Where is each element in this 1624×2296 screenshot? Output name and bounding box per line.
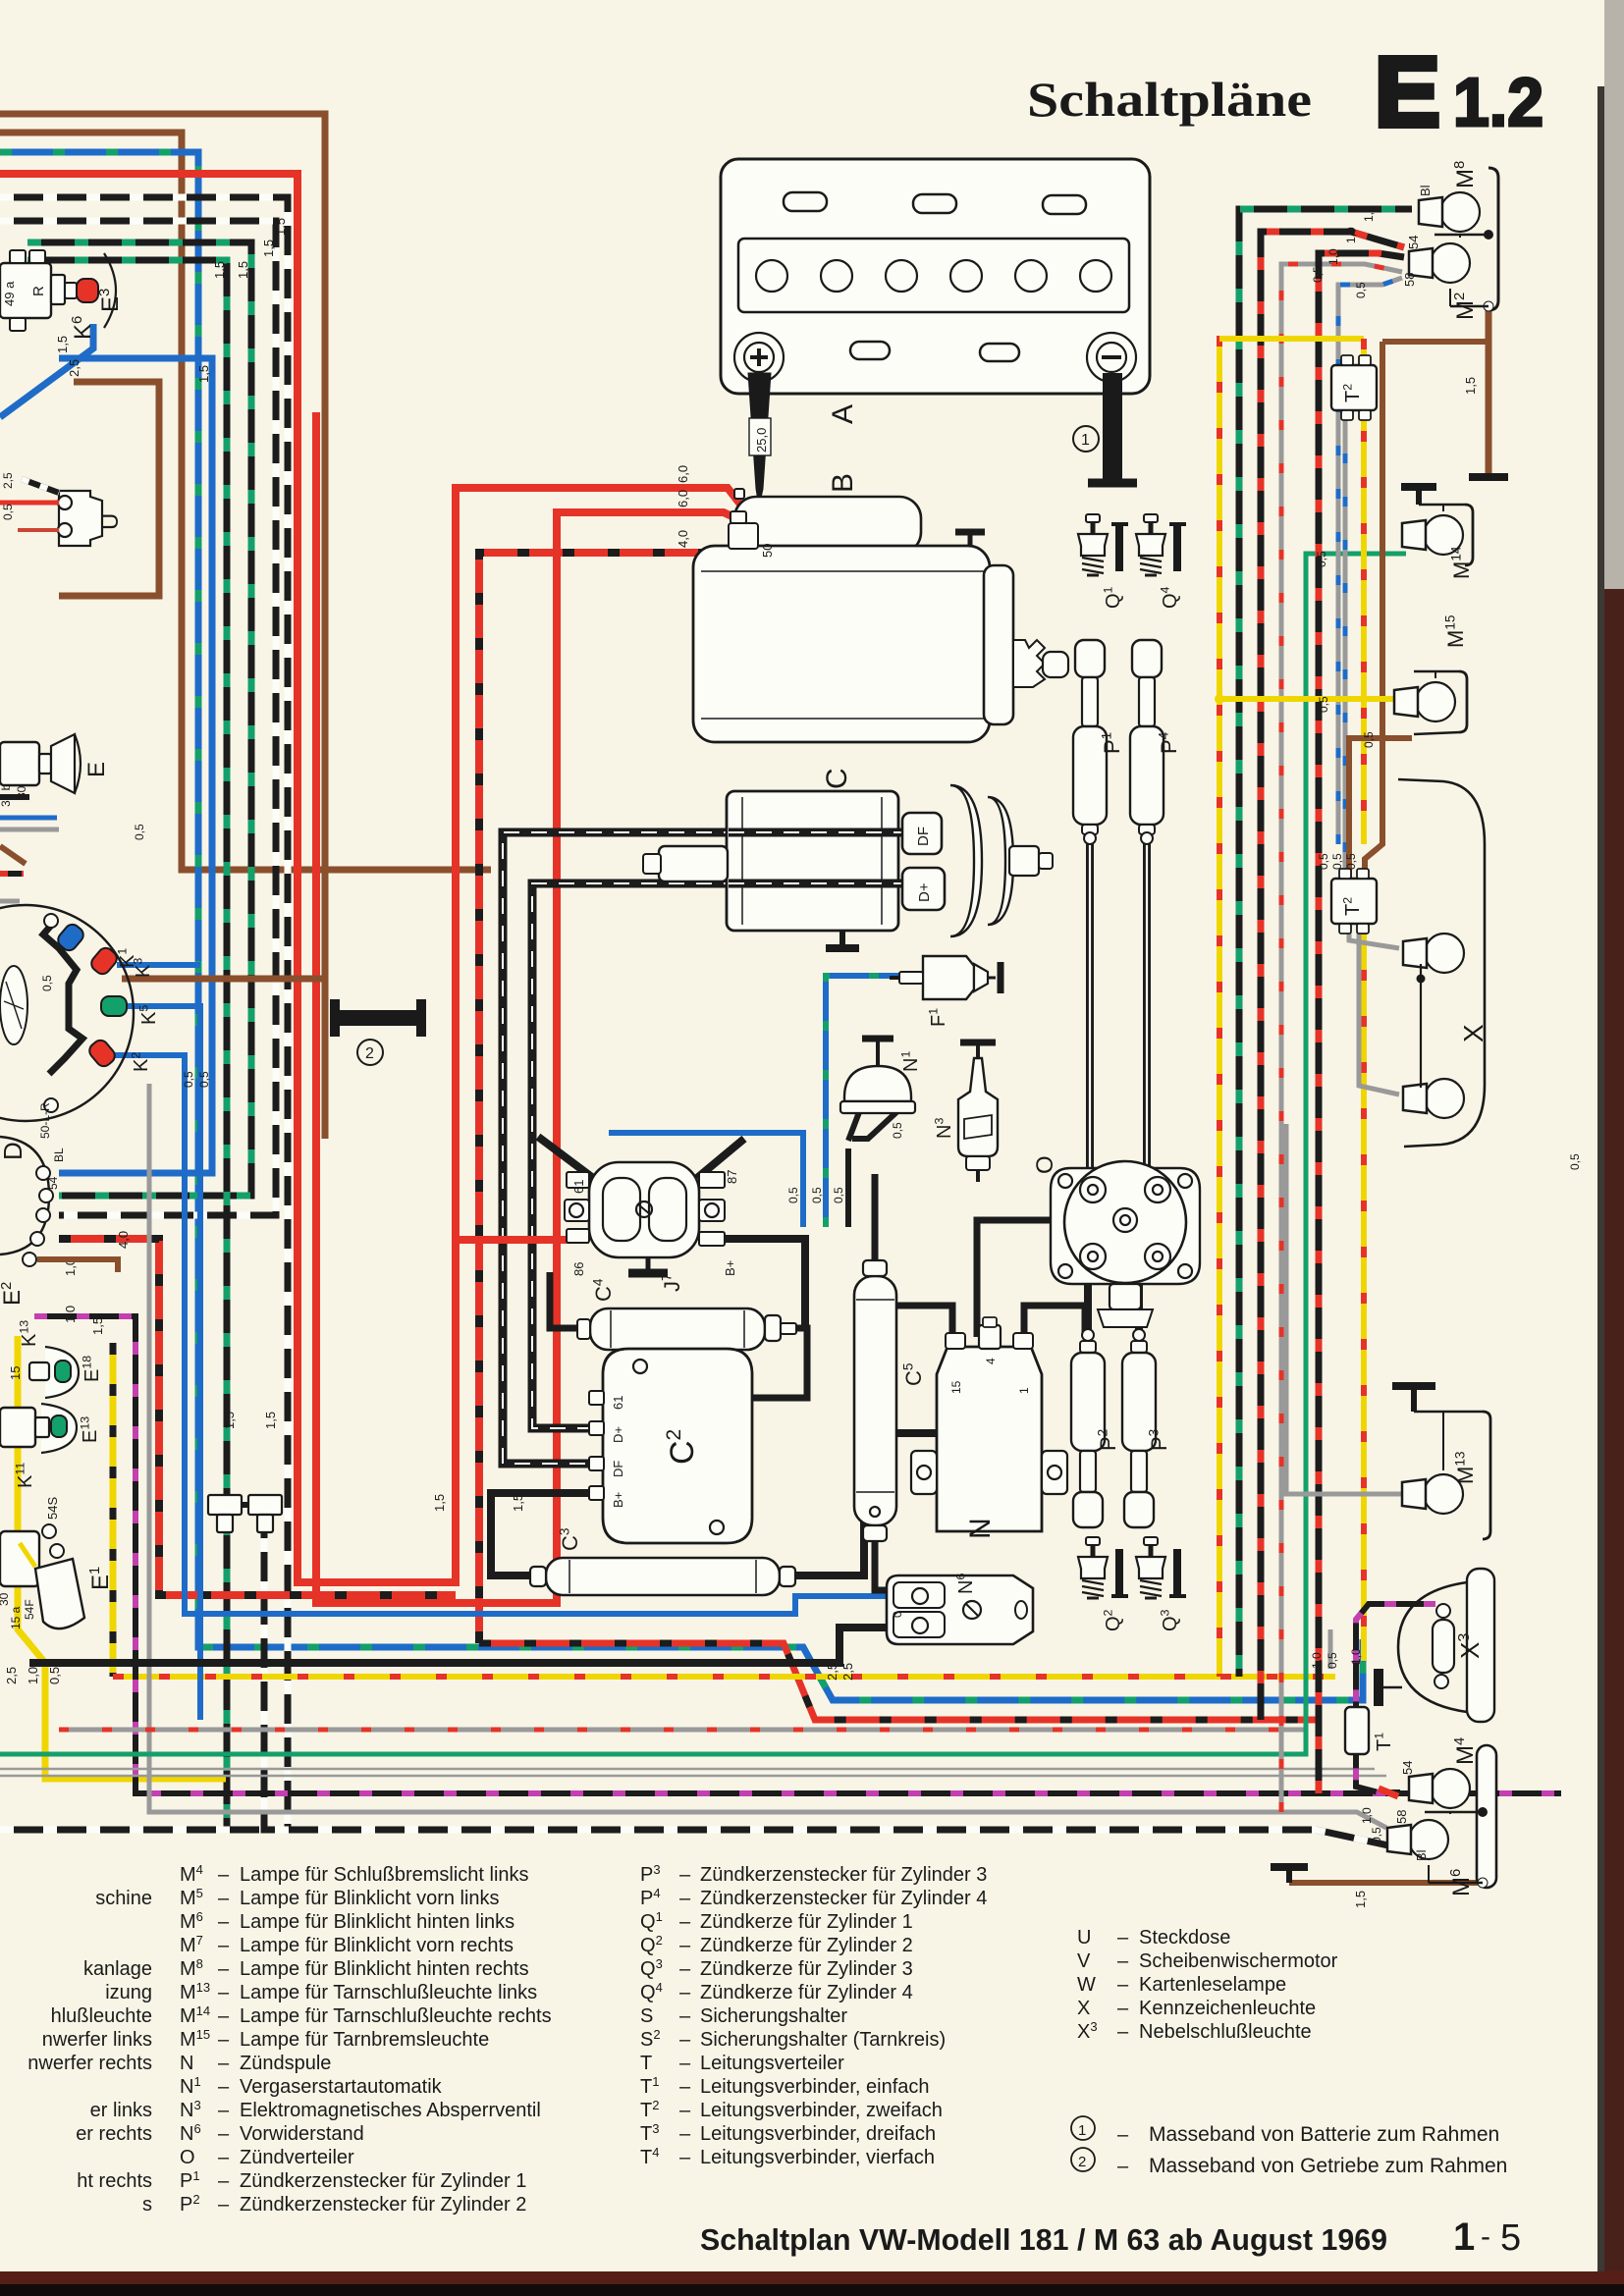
svg-text:5: 5 xyxy=(1500,2217,1521,2259)
wire C5 bottom lead xyxy=(875,1538,923,1590)
resistor N6 body xyxy=(887,1575,1033,1644)
svg-text:BL: BL xyxy=(52,1148,66,1162)
svg-text:–: – xyxy=(218,1982,230,2003)
wire red J7 86 xyxy=(456,1236,589,1244)
starter end cap xyxy=(984,565,1013,724)
svg-text:Kennzeichenleuchte: Kennzeichenleuchte xyxy=(1139,1998,1316,2019)
svg-text:1: 1 xyxy=(1017,1387,1031,1394)
wire yellow/red long bottom xyxy=(113,1674,1335,1680)
connector T1 xyxy=(1345,1707,1369,1754)
svg-text:–: – xyxy=(679,2076,691,2098)
wire yellow/black 1.5 xyxy=(110,1343,117,1677)
wire blue K2 lamp xyxy=(114,1055,887,1614)
lamp M14 xyxy=(1424,515,1463,555)
svg-text:Leitungsverteiler: Leitungsverteiler xyxy=(700,2053,844,2074)
plug cable distributor to P1 xyxy=(1086,836,1094,1183)
wire brown second xyxy=(0,133,491,870)
svg-text:0,5: 0,5 xyxy=(1330,853,1344,870)
warning lamp K3 red xyxy=(88,945,120,978)
wire yellow/red fuse riser xyxy=(1217,336,1222,1677)
wire grey T2 to X bulb2 xyxy=(1359,924,1399,1095)
svg-text:0,5: 0,5 xyxy=(891,1122,904,1139)
svg-text:Zündkerze für Zylinder 1: Zündkerze für Zylinder 1 xyxy=(700,1911,913,1933)
wire C5 top lead xyxy=(872,1174,879,1263)
plug connector P4 xyxy=(1132,640,1162,677)
svg-text:1: 1 xyxy=(1081,432,1090,449)
svg-text:1,0: 1,0 xyxy=(26,1667,40,1684)
svg-text:0,5: 0,5 xyxy=(810,1187,824,1203)
fog lamp X3 housing xyxy=(1398,1582,1467,1712)
svg-text:6,0: 6,0 xyxy=(676,490,690,507)
svg-text:D+: D+ xyxy=(611,1426,625,1443)
wire blue/green to F1 xyxy=(826,976,913,1227)
flasher relay 49a body xyxy=(0,263,51,318)
svg-text:U: U xyxy=(97,513,124,530)
lamp K13 green xyxy=(45,1347,79,1398)
svg-text:1,5: 1,5 xyxy=(263,1412,278,1429)
warning lamp K5 green xyxy=(101,996,127,1016)
wire black/red second xyxy=(1319,253,1404,1793)
svg-text:schine: schine xyxy=(95,1888,152,1909)
junction dots M4 M6 xyxy=(1478,1807,1488,1817)
svg-text:0: 0 xyxy=(891,1611,904,1618)
regulator J7 body xyxy=(589,1162,699,1257)
wire C4 right lead xyxy=(752,1328,807,1398)
licence plate lamp X housing xyxy=(1398,779,1485,1147)
wire black/green 1.5 a xyxy=(27,242,251,1196)
wire red tip M4 54 xyxy=(1379,1789,1398,1796)
svg-text:30: 30 xyxy=(15,785,28,799)
svg-text:V: V xyxy=(1077,1950,1091,1972)
svg-text:54F: 54F xyxy=(23,1599,36,1620)
wire stub left edge b xyxy=(0,846,26,864)
svg-text:2: 2 xyxy=(1078,2154,1086,2170)
battery cell plate xyxy=(738,239,1129,312)
svg-text:–: – xyxy=(218,1935,230,1956)
svg-text:–: – xyxy=(218,2147,230,2168)
bulb M8 xyxy=(1440,192,1480,232)
svg-text:1,5: 1,5 xyxy=(196,365,211,383)
lamp housing bracket M4 M6 xyxy=(1477,1745,1496,1888)
svg-text:Zündkerzenstecker für Zylinder: Zündkerzenstecker für Zylinder 1 xyxy=(240,2170,526,2192)
warning lamp K2 red xyxy=(86,1038,118,1070)
label circled 2 xyxy=(357,1040,383,1065)
plug cable distributor to P3 xyxy=(1135,1260,1143,1335)
wire brown M15 link xyxy=(1349,738,1412,879)
svg-text:er links: er links xyxy=(90,2100,152,2121)
wire stub left edge d xyxy=(0,899,20,904)
striped stub to U xyxy=(22,479,59,493)
svg-text:er rechts: er rechts xyxy=(76,2123,152,2145)
svg-text:49 a: 49 a xyxy=(2,281,17,306)
svg-text:Zündverteiler: Zündverteiler xyxy=(240,2147,354,2168)
bulb M6 xyxy=(1409,1820,1448,1859)
junction dots M8 M2 xyxy=(1484,230,1493,240)
svg-text:61: 61 xyxy=(611,1396,625,1410)
svg-text:Zündkerzenstecker für Zylinder: Zündkerzenstecker für Zylinder 3 xyxy=(700,1864,987,1886)
wire grey T2 to X bulb1 xyxy=(1349,924,1399,948)
svg-text:–: – xyxy=(218,1958,230,1980)
distributor cap xyxy=(1064,1161,1186,1283)
distributor shaft xyxy=(1110,1284,1141,1309)
wire coil terminal 4 to distributor xyxy=(977,1220,1120,1337)
svg-text:0,5: 0,5 xyxy=(47,1667,62,1684)
cable C3 body xyxy=(546,1558,780,1595)
svg-text:–: – xyxy=(218,2194,230,2216)
svg-text:1,5: 1,5 xyxy=(273,218,288,236)
wire grey/blue riser xyxy=(1338,278,1402,844)
svg-text:15: 15 xyxy=(949,1380,963,1394)
connector T pieces left xyxy=(208,1495,242,1515)
svg-text:izung: izung xyxy=(105,1982,152,2003)
wire brown gauge link xyxy=(122,976,325,983)
wire brown D stub xyxy=(37,1259,118,1272)
link bulbs to bracket xyxy=(1459,235,1461,238)
speedometer housing circle xyxy=(0,905,134,1121)
svg-text:1,0: 1,0 xyxy=(63,1306,78,1323)
svg-text:Zündkerze für Zylinder 2: Zündkerze für Zylinder 2 xyxy=(700,1935,913,1956)
svg-text:Masseband von Batterie zum Rah: Masseband von Batterie zum Rahmen xyxy=(1149,2123,1499,2146)
svg-text:Zündkerze für Zylinder 4: Zündkerze für Zylinder 4 xyxy=(700,1982,913,2003)
svg-text:50-L-R: 50-L-R xyxy=(38,1102,52,1139)
svg-text:D: D xyxy=(0,1142,27,1160)
wire J7 87 diagonal xyxy=(697,1139,744,1178)
wire red to top-left edge xyxy=(0,174,748,1582)
speedometer terminals xyxy=(44,914,58,928)
wire C3 right to coil xyxy=(779,1433,937,1575)
svg-text:30: 30 xyxy=(0,1592,11,1606)
svg-text:–: – xyxy=(1117,2124,1129,2146)
svg-text:–: – xyxy=(1117,1998,1129,2019)
svg-text:–: – xyxy=(679,1864,691,1886)
choke N1 body xyxy=(844,1066,911,1101)
svg-text:Sicherungshalter: Sicherungshalter xyxy=(700,2005,847,2027)
svg-text:T: T xyxy=(640,2053,652,2074)
wire grey/red riser xyxy=(1281,264,1402,1812)
battery A body xyxy=(721,159,1150,394)
ground starter xyxy=(968,532,973,546)
cable DF generator to C2 xyxy=(503,832,904,1464)
svg-text:Lampe für Schlußbremslicht lin: Lampe für Schlußbremslicht links xyxy=(240,1864,529,1886)
svg-text:58: 58 xyxy=(1402,273,1417,287)
wire blue stub gauge xyxy=(0,816,57,821)
arc E3 around K6 xyxy=(104,253,116,328)
wire black/white 1.5 b xyxy=(0,221,276,1215)
connector T2 lower xyxy=(1331,879,1377,924)
wire blue 0.5 left xyxy=(609,1133,803,1227)
starter pinion gear xyxy=(1013,640,1045,687)
svg-text:Schaltplan VW-Modell 181 / M 6: Schaltplan VW-Modell 181 / M 63 ab Augus… xyxy=(700,2222,1387,2257)
svg-text:0,5: 0,5 xyxy=(1,504,15,520)
generator cable pass-through D+ xyxy=(729,880,902,888)
wire black/white bottom stub xyxy=(0,1827,264,1834)
svg-text:Lampe für Blinklicht hinten li: Lampe für Blinklicht hinten links xyxy=(240,1911,514,1933)
wire black/violet 1.0 xyxy=(34,1316,1561,1793)
svg-text:–: – xyxy=(679,2100,691,2121)
wire grey/red bottom long xyxy=(59,1728,1306,1733)
svg-text:2,5: 2,5 xyxy=(840,1663,855,1681)
svg-text:U: U xyxy=(1077,1927,1091,1949)
switch E body xyxy=(0,742,39,785)
svg-text:N: N xyxy=(964,1518,997,1539)
svg-text:2,5: 2,5 xyxy=(4,1667,19,1684)
wire red/black 4.0 from D 50 xyxy=(59,1239,456,1595)
ground M2 xyxy=(1488,476,1489,478)
wire brown 2.5 from socket U xyxy=(59,382,159,596)
svg-text:DF: DF xyxy=(611,1461,625,1477)
svg-text:–: – xyxy=(218,2053,230,2074)
wire brown outer frame top xyxy=(0,114,325,1139)
svg-text:50: 50 xyxy=(760,544,775,558)
wire brown T2 riser xyxy=(1365,342,1382,879)
svg-text:S: S xyxy=(640,2005,653,2027)
wire yellow M15 xyxy=(1219,696,1406,702)
svg-text:nwerfer links: nwerfer links xyxy=(42,2029,152,2051)
wire red/black 4.0 starter xyxy=(479,538,746,1643)
battery cells xyxy=(756,260,787,292)
ground J7 xyxy=(646,1257,651,1273)
plug connector P2 xyxy=(1082,1329,1094,1341)
switch E1 body xyxy=(0,1531,39,1586)
wire C4 left lead xyxy=(550,1272,590,1328)
ground N3 xyxy=(976,1042,980,1058)
wire black/green to M8 xyxy=(1239,209,1412,1669)
fuel gauge ellipse xyxy=(0,966,27,1044)
svg-text:–: – xyxy=(1117,1927,1129,1949)
wire yellow link T2 xyxy=(1219,336,1364,342)
svg-text:–: – xyxy=(679,2053,691,2074)
svg-text:0,5: 0,5 xyxy=(1311,266,1325,283)
battery plus terminal xyxy=(734,333,784,382)
spark plug Q4 xyxy=(1149,520,1154,534)
switch E1 lever xyxy=(35,1559,84,1629)
svg-text:–: – xyxy=(679,1982,691,2003)
svg-text:–: – xyxy=(679,1935,691,1956)
svg-text:1.2: 1.2 xyxy=(1453,64,1543,140)
svg-text:4,0: 4,0 xyxy=(676,530,690,548)
wire blue/green from edge xyxy=(0,152,1363,1700)
wire N1 fork b xyxy=(852,1112,896,1139)
svg-text:R: R xyxy=(30,286,47,296)
svg-text:0,5: 0,5 xyxy=(197,1071,211,1088)
lamp M13 xyxy=(1424,1474,1463,1514)
wire thin grey pair b xyxy=(0,1775,1386,1777)
starter B solenoid xyxy=(734,497,921,554)
wire violet/black X3 T1 M4 xyxy=(1356,1604,1435,1792)
page right edge shadow line xyxy=(1597,86,1604,2296)
generator cable pass-through DF xyxy=(729,828,902,837)
svg-text:C: C xyxy=(821,768,853,789)
svg-text:0,5: 0,5 xyxy=(1326,1652,1339,1669)
svg-text:0,5: 0,5 xyxy=(1317,696,1330,713)
wire black/white 1.5 a xyxy=(0,197,288,1830)
svg-text:W: W xyxy=(1077,1974,1096,1996)
bulb M4 xyxy=(1431,1769,1470,1808)
wire red socket U xyxy=(0,501,59,506)
svg-text:–: – xyxy=(1117,2156,1129,2177)
svg-text:1,5: 1,5 xyxy=(222,1412,237,1429)
svg-text:Lampe für Tarnschlußleuchte re: Lampe für Tarnschlußleuchte rechts xyxy=(240,2005,552,2027)
wire black/red to M2 54 xyxy=(1261,232,1404,1683)
svg-text:–: – xyxy=(1117,1974,1129,1996)
svg-text:DF: DF xyxy=(915,827,932,846)
bulb X3 xyxy=(1433,1620,1454,1673)
svg-text:Zündkerzenstecker für Zylinder: Zündkerzenstecker für Zylinder 2 xyxy=(240,2194,526,2216)
label circled 1 xyxy=(1073,426,1099,452)
svg-text:1,0: 1,0 xyxy=(1349,1648,1363,1665)
svg-text:Elektromagnetisches Absperrven: Elektromagnetisches Absperrventil xyxy=(240,2100,541,2121)
ground X3 xyxy=(1374,1669,1383,1706)
junction box C2 body xyxy=(603,1349,752,1543)
svg-text:0,5: 0,5 xyxy=(1362,731,1376,748)
indicator lamp K6 red bulb xyxy=(65,283,77,298)
svg-text:D+: D+ xyxy=(916,882,933,902)
svg-text:Vorwiderstand: Vorwiderstand xyxy=(240,2123,364,2145)
wire brown M6 ground link xyxy=(1289,1880,1478,1886)
svg-text:1,0: 1,0 xyxy=(1344,227,1358,243)
wire black 2.5 to N6 xyxy=(29,1628,887,1663)
svg-text:1,5: 1,5 xyxy=(1353,1891,1368,1908)
wire yellow from E1 xyxy=(18,1336,226,1779)
battery vent slots top xyxy=(784,192,827,211)
svg-text:–: – xyxy=(218,2100,230,2121)
svg-text:2,5: 2,5 xyxy=(825,1663,839,1681)
oil pressure switch F1 xyxy=(923,956,974,999)
svg-text:–: – xyxy=(218,2123,230,2145)
wire yellow below T2-2 xyxy=(1361,924,1367,1661)
plug cable distributor to P4 xyxy=(1143,836,1151,1183)
svg-text:31 b: 31 b xyxy=(0,783,13,807)
svg-text:54: 54 xyxy=(46,1176,60,1190)
svg-text:1,5: 1,5 xyxy=(511,1494,525,1512)
svg-text:1,0: 1,0 xyxy=(1360,1807,1374,1824)
svg-text:B+: B+ xyxy=(723,1260,737,1276)
svg-text:0,5: 0,5 xyxy=(182,1071,195,1088)
C2 terminal stubs xyxy=(589,1391,604,1405)
svg-text:1,5: 1,5 xyxy=(261,240,276,257)
svg-text:A: A xyxy=(827,404,859,424)
svg-text:Zündkerze für Zylinder 3: Zündkerze für Zylinder 3 xyxy=(700,1958,913,1980)
svg-text:2,5: 2,5 xyxy=(67,359,81,377)
svg-text:25,0: 25,0 xyxy=(754,428,769,453)
svg-text:4,0: 4,0 xyxy=(116,1231,131,1249)
bottom dark book edge xyxy=(0,2271,1624,2296)
svg-text:1,5: 1,5 xyxy=(432,1494,447,1512)
socket U body xyxy=(59,491,102,546)
wire C3 to C2 B+ xyxy=(491,1493,603,1575)
label 25.0 on strap xyxy=(749,418,771,455)
bulb X lower xyxy=(1425,1079,1464,1118)
right margin grey top xyxy=(1604,0,1624,589)
svg-text:X: X xyxy=(1077,1998,1090,2019)
spark plug Q3 xyxy=(1149,1543,1154,1557)
svg-text:–: – xyxy=(1117,1950,1129,1972)
legend masseband 2 xyxy=(1071,2148,1095,2171)
svg-text:Zündkerzenstecker für Zylinder: Zündkerzenstecker für Zylinder 4 xyxy=(700,1888,987,1909)
generator pulley xyxy=(950,785,982,936)
svg-text:Sicherungshalter (Tarnkreis): Sicherungshalter (Tarnkreis) xyxy=(700,2029,946,2051)
svg-text:0,5: 0,5 xyxy=(1344,853,1358,870)
svg-text:Lampe für Blinklicht vorn rech: Lampe für Blinklicht vorn rechts xyxy=(240,1935,514,1956)
svg-text:86: 86 xyxy=(571,1262,586,1276)
coil bracket xyxy=(911,1451,937,1494)
svg-text:1,5: 1,5 xyxy=(90,1317,105,1335)
svg-text:Lampe für Blinklicht vorn link: Lampe für Blinklicht vorn links xyxy=(240,1888,500,1909)
wire black/white through T to M6 xyxy=(264,1495,1404,1845)
plug connector P3 xyxy=(1133,1329,1145,1341)
svg-text:0,5: 0,5 xyxy=(1568,1153,1582,1170)
ground N1 xyxy=(876,1039,880,1066)
wire blue diagonal into flasher K6 xyxy=(0,324,93,417)
svg-text:2,5: 2,5 xyxy=(1,472,15,489)
wire black/red bottom turn xyxy=(1258,1683,1265,1720)
svg-text:0,5: 0,5 xyxy=(832,1187,845,1203)
wire red/black long bottom xyxy=(479,1643,1316,1720)
svg-text:Bl: Bl xyxy=(1414,1849,1429,1861)
wire red socket U b xyxy=(18,528,59,532)
ground strap 25.0 from battery plus xyxy=(748,373,771,507)
junction yellow M15 xyxy=(1215,694,1224,704)
svg-text:Masseband von Getriebe zum Rah: Masseband von Getriebe zum Rahmen xyxy=(1149,2155,1507,2177)
svg-text:–: – xyxy=(218,2029,230,2051)
warning lamp K1 blue xyxy=(55,922,86,954)
lamp M15 xyxy=(1416,682,1455,721)
plug connector P1 xyxy=(1075,640,1105,677)
ground M13 xyxy=(1411,1386,1417,1412)
bulb M2 xyxy=(1431,243,1470,283)
wire yellow E1 jog xyxy=(20,1543,35,1567)
battery vent slots bottom xyxy=(850,342,890,359)
svg-text:0,5: 0,5 xyxy=(1317,853,1330,870)
svg-text:–: – xyxy=(218,2076,230,2098)
svg-text:–: – xyxy=(218,1888,230,1909)
svg-text:nwerfer rechts: nwerfer rechts xyxy=(27,2053,152,2074)
svg-text:–: – xyxy=(218,1864,230,1886)
svg-text:1,5: 1,5 xyxy=(212,261,227,279)
wire grey X3 link xyxy=(1328,1629,1333,1669)
wire stub left edge c xyxy=(0,871,24,877)
D terminals xyxy=(36,1166,50,1180)
svg-text:Leitungsverbinder, dreifach: Leitungsverbinder, dreifach xyxy=(700,2123,936,2145)
ground strap 1 battery minus xyxy=(1103,373,1122,480)
svg-text:–: – xyxy=(679,2147,691,2168)
svg-text:Bl: Bl xyxy=(1418,185,1433,196)
legend masseband 1 xyxy=(1071,2116,1095,2140)
svg-text:–: – xyxy=(679,1888,691,1909)
wire blue K3 stub xyxy=(117,962,200,968)
lamp housing bracket M8 M2 xyxy=(1489,168,1498,310)
starter terminal 50 stack xyxy=(731,511,746,523)
starter main body xyxy=(693,546,990,742)
ground M14 xyxy=(1416,487,1422,505)
connector T2 upper xyxy=(1331,365,1377,410)
lamp sockets path xyxy=(43,921,82,1074)
ground strap 2 gearbox xyxy=(332,1010,424,1026)
svg-text:s: s xyxy=(142,2194,152,2216)
generator C body xyxy=(727,791,898,931)
wire brown M2 horizontal xyxy=(1382,339,1489,345)
spark plug Q1 xyxy=(1091,520,1096,534)
svg-text:Lampe für Tarnbremsleuchte: Lampe für Tarnbremsleuchte xyxy=(240,2029,489,2051)
cable C5 body xyxy=(854,1276,896,1525)
cable D+ generator to C2 xyxy=(532,883,904,1428)
svg-text:2: 2 xyxy=(365,1045,374,1062)
svg-text:61: 61 xyxy=(571,1180,586,1194)
svg-text:1,0: 1,0 xyxy=(1362,205,1376,222)
svg-text:–: – xyxy=(1117,2021,1129,2043)
svg-text:–: – xyxy=(679,1911,691,1933)
svg-text:-: - xyxy=(1481,2220,1490,2253)
